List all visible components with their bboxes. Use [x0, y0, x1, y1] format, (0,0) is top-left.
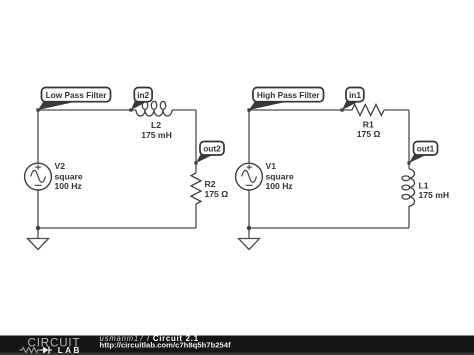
svg-text:V2: V2 — [55, 161, 66, 171]
svg-text:Low Pass Filter: Low Pass Filter — [46, 90, 108, 100]
svg-text:100 Hz: 100 Hz — [266, 181, 293, 191]
svg-text:out1: out1 — [417, 144, 435, 154]
svg-text:175 Ω: 175 Ω — [205, 189, 229, 199]
svg-text:square: square — [55, 171, 83, 181]
svg-text:out2: out2 — [203, 144, 221, 154]
svg-text:LAB: LAB — [58, 345, 82, 355]
svg-text:L2: L2 — [151, 120, 161, 130]
svg-text:175 mH: 175 mH — [419, 190, 450, 200]
svg-text:L1: L1 — [419, 180, 429, 190]
svg-text:http://circuitlab.com/c7h8q5h7: http://circuitlab.com/c7h8q5h7b254f — [100, 340, 232, 349]
svg-text:175 mH: 175 mH — [141, 130, 172, 140]
svg-text:square: square — [266, 171, 294, 181]
svg-text:V1: V1 — [266, 161, 277, 171]
svg-text:in1: in1 — [349, 90, 361, 100]
svg-text:in2: in2 — [137, 90, 149, 100]
svg-text:R2: R2 — [205, 179, 216, 189]
svg-text:100 Hz: 100 Hz — [55, 181, 82, 191]
svg-text:R1: R1 — [363, 120, 374, 130]
svg-text:175 Ω: 175 Ω — [357, 129, 381, 139]
svg-text:High Pass Filter: High Pass Filter — [257, 90, 320, 100]
